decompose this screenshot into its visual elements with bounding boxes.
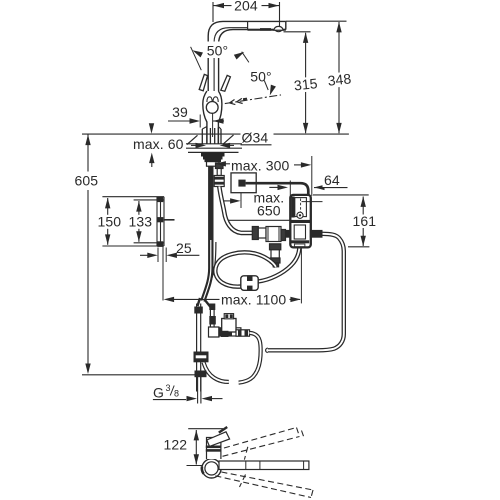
left arc arrowhead [191, 48, 203, 58]
svg-text:25: 25 [176, 240, 192, 256]
right nipple [310, 230, 323, 238]
dim 64 [289, 181, 291, 197]
check valve chain horizontal [252, 227, 285, 242]
label max. 650 [254, 189, 285, 218]
angle 50 handle: right axis line [242, 52, 249, 63]
max60 upper arrow [151, 126, 153, 128]
dim 204 arrow left [214, 3, 225, 8]
tee fitting dark [194, 352, 209, 363]
collar bands [206, 445, 222, 448]
bracket screws [157, 197, 163, 203]
svg-text:G: G [153, 385, 164, 401]
hose arc E left [204, 362, 229, 382]
dim 122 bottom extension [187, 465, 205, 467]
faucet centerline below ball [212, 114, 214, 138]
dim 605 line [87, 135, 89, 373]
label 50 deg handle [205, 42, 232, 59]
box left inner band [291, 197, 294, 218]
double chevron on centerline [229, 99, 235, 105]
head bottom extension line [284, 31, 311, 33]
svg-text:204: 204 [234, 0, 258, 14]
valve black elbow [221, 331, 229, 337]
wall bracket [102, 197, 164, 246]
dim 122 top extension [188, 428, 223, 430]
svg-text:max. 1100: max. 1100 [221, 292, 286, 308]
lever knob tick [219, 427, 227, 433]
spout arm underside [219, 30, 286, 91]
baseline fitting dark [195, 371, 207, 378]
dim 315 line [305, 33, 307, 133]
dim 133 [138, 201, 140, 242]
spout inner hose line [214, 28, 248, 91]
dim 204 line [213, 5, 280, 7]
svg-text:122: 122 [164, 437, 188, 453]
bottom slot [294, 244, 305, 247]
max 1100 extension line [300, 249, 302, 304]
spout arm right end [285, 21, 287, 29]
dim 122 line [195, 430, 197, 465]
svg-text:8: 8 [174, 389, 179, 399]
aerator dome [274, 26, 283, 30]
side view faucet [202, 427, 309, 478]
svg-text:348: 348 [327, 70, 352, 88]
label G 3/8 [153, 383, 179, 401]
dim 150 [107, 198, 109, 245]
dashed spout upper position [223, 428, 305, 460]
dim 204 arrow right [269, 3, 280, 8]
max60 / dia34 reference line [82, 133, 349, 135]
lever right position [221, 75, 231, 91]
svg-text:39: 39 [172, 104, 188, 120]
dim 25 [158, 248, 166, 263]
knob [297, 212, 303, 218]
right pipe top nut [209, 304, 215, 311]
max650 left extension + arrow [240, 193, 242, 208]
right supply pipe [210, 304, 214, 328]
dim 348 label [325, 70, 354, 89]
dim 348 line [338, 22, 340, 133]
elbow right pipe [209, 327, 219, 337]
lever socket curls [207, 97, 212, 102]
power cable to control box [246, 183, 309, 214]
lower chamber [294, 225, 305, 239]
box top inner lid [295, 198, 307, 217]
wall bracket long extension [162, 247, 164, 301]
G38 arrows [187, 398, 189, 400]
lid dashed line [300, 199, 302, 214]
hose A faucet to box [219, 187, 252, 233]
svg-text:150: 150 [98, 214, 122, 230]
label max. 300 with arrows [219, 163, 230, 165]
branch check valve down [270, 244, 281, 267]
right connector from valve [236, 330, 250, 336]
plug pin [238, 180, 245, 187]
valve cap [224, 314, 233, 319]
dim 39 line + arrows [168, 120, 191, 122]
svg-text:50°: 50° [250, 69, 271, 85]
dim max 1100 [174, 298, 301, 300]
max60 lower arrow [151, 158, 153, 167]
counter top line [186, 143, 242, 145]
lever left position [199, 74, 207, 90]
svg-text:max. 60: max. 60 [133, 136, 184, 152]
spray head bottom edge thick [248, 29, 286, 31]
right pipe nut [209, 316, 216, 325]
bottom band [291, 240, 309, 243]
dark mounting hardware under deck [202, 153, 225, 166]
dia34 leader slashes [187, 135, 234, 145]
swivel arc arrow down [264, 81, 268, 91]
swivel base circle [202, 459, 221, 478]
dim 204 label [232, 0, 262, 14]
right arc arrowhead [234, 50, 246, 60]
label 122 [162, 437, 190, 453]
body column [207, 438, 221, 460]
left supply pipe [197, 304, 201, 392]
control box outline [290, 195, 311, 248]
base shoulders [202, 127, 221, 130]
angle 50 handle: left axis line [191, 47, 202, 70]
spout bar [219, 461, 309, 470]
lever [207, 432, 230, 447]
hose C box outlet [268, 234, 344, 350]
dim 161 [313, 194, 369, 196]
swivel dash-dot centerline [225, 95, 281, 104]
dim 204 extension left [212, 2, 214, 22]
mid dark band [291, 220, 311, 223]
hose B pullout loop [215, 252, 276, 286]
bottom baseline [82, 374, 199, 376]
counter bottom line [186, 147, 242, 149]
dia34 arrows at shank [191, 144, 197, 146]
power plug box [231, 173, 256, 193]
underside deck line [188, 151, 239, 153]
spout outer profile [208, 21, 286, 91]
top extension line from spout [286, 20, 347, 22]
dim 39 extension [199, 115, 201, 128]
dashed spout lower position [215, 472, 313, 498]
clip leader line [302, 201, 323, 203]
svg-text:max. 300: max. 300 [231, 158, 289, 174]
svg-text:315: 315 [293, 75, 318, 93]
svg-text:3: 3 [166, 383, 171, 393]
dia34 underline [241, 144, 272, 146]
650 reference line [227, 219, 296, 221]
svg-text:64: 64 [324, 172, 340, 188]
left nipple [284, 230, 290, 238]
supply hoses pair going down [203, 166, 211, 301]
horizontal connector to valve [219, 328, 241, 336]
svg-text:161: 161 [353, 213, 377, 229]
G38 tail pipe [198, 377, 201, 404]
hose C open end cap [266, 348, 268, 352]
hose arc D right [239, 333, 261, 383]
valve block [222, 319, 236, 333]
handle bulge body [203, 91, 207, 144]
supply hose end nipples [198, 298, 211, 307]
label max. 60 [131, 136, 184, 152]
hose weight [241, 276, 258, 291]
svg-text:650: 650 [257, 202, 281, 218]
spray head joint [247, 21, 249, 30]
dim 315 label [292, 75, 320, 94]
dim 204 extension right [279, 2, 281, 27]
svg-text:50°: 50° [207, 43, 228, 59]
base column six verticals [202, 128, 221, 144]
svg-text:Ø34: Ø34 [242, 130, 269, 146]
spray control button [260, 28, 271, 31]
svg-text:133: 133 [129, 214, 153, 230]
shank check valve chain [214, 163, 224, 187]
svg-text:605: 605 [75, 172, 99, 188]
ball joint circle [206, 102, 218, 114]
G38 underline [153, 399, 186, 401]
left pipe top nut [194, 307, 203, 314]
